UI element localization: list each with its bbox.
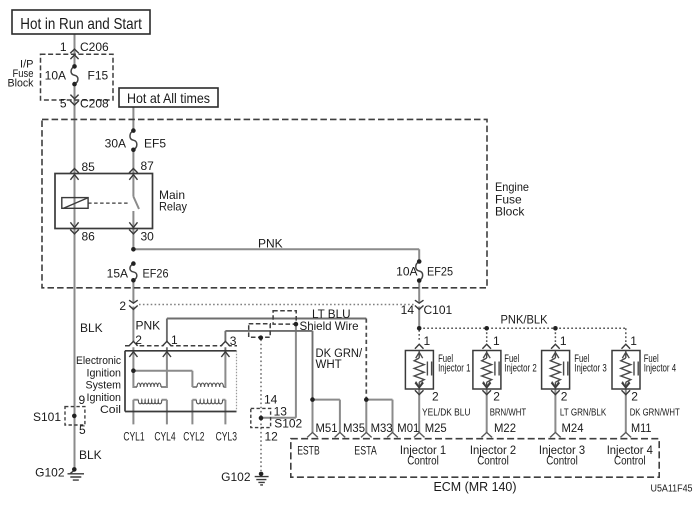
svg-text:1: 1 bbox=[630, 334, 637, 348]
svg-text:EF25: EF25 bbox=[427, 265, 453, 279]
svg-text:Block: Block bbox=[495, 204, 525, 218]
svg-text:C206: C206 bbox=[80, 40, 109, 54]
svg-text:2: 2 bbox=[493, 389, 500, 403]
svg-text:Control: Control bbox=[407, 456, 439, 468]
svg-text:M24: M24 bbox=[562, 421, 584, 435]
svg-text:86: 86 bbox=[82, 229, 96, 243]
svg-text:Injector 4: Injector 4 bbox=[644, 363, 676, 375]
svg-text:Ignition: Ignition bbox=[87, 392, 122, 404]
svg-text:Hot in Run and Start: Hot in Run and Start bbox=[20, 16, 142, 33]
svg-text:CYL4: CYL4 bbox=[154, 431, 176, 443]
svg-text:Control: Control bbox=[477, 456, 509, 468]
svg-text:LT GRN/BLK: LT GRN/BLK bbox=[560, 407, 607, 418]
svg-text:PNK: PNK bbox=[258, 236, 283, 250]
svg-text:G102: G102 bbox=[221, 470, 251, 484]
svg-text:Injector 3: Injector 3 bbox=[574, 363, 606, 375]
svg-text:14: 14 bbox=[401, 303, 415, 317]
svg-text:S102: S102 bbox=[274, 416, 302, 430]
svg-text:M35: M35 bbox=[343, 421, 365, 435]
svg-text:1: 1 bbox=[424, 334, 431, 348]
svg-text:1: 1 bbox=[493, 334, 500, 348]
svg-text:2: 2 bbox=[631, 389, 638, 403]
svg-text:Relay: Relay bbox=[159, 199, 187, 213]
svg-text:CYL2: CYL2 bbox=[183, 431, 204, 443]
svg-text:G102: G102 bbox=[35, 465, 65, 479]
svg-text:Control: Control bbox=[546, 456, 578, 468]
svg-text:F15: F15 bbox=[88, 68, 109, 82]
svg-text:EF5: EF5 bbox=[144, 136, 166, 150]
svg-text:BRN/WHT: BRN/WHT bbox=[490, 407, 527, 418]
svg-text:CYL1: CYL1 bbox=[123, 431, 144, 443]
svg-text:5: 5 bbox=[60, 96, 67, 110]
svg-text:C101: C101 bbox=[424, 303, 453, 317]
svg-text:PNK: PNK bbox=[136, 318, 161, 332]
svg-text:2: 2 bbox=[119, 299, 126, 313]
svg-text:9: 9 bbox=[79, 393, 86, 407]
svg-text:EF26: EF26 bbox=[143, 266, 169, 280]
svg-text:1: 1 bbox=[171, 333, 178, 347]
svg-text:System: System bbox=[86, 380, 122, 392]
svg-text:3: 3 bbox=[230, 334, 237, 348]
svg-text:Hot at All times: Hot at All times bbox=[127, 90, 210, 106]
svg-text:Coil: Coil bbox=[100, 404, 121, 416]
svg-text:YEL/DK BLU: YEL/DK BLU bbox=[422, 407, 471, 418]
svg-text:M51: M51 bbox=[316, 421, 338, 435]
svg-text:Shield Wire: Shield Wire bbox=[300, 319, 359, 333]
svg-text:15A: 15A bbox=[107, 266, 128, 280]
svg-text:87: 87 bbox=[141, 159, 155, 173]
svg-text:M33: M33 bbox=[371, 421, 393, 435]
svg-text:M11: M11 bbox=[631, 421, 652, 435]
svg-text:C208: C208 bbox=[80, 96, 109, 110]
svg-text:1: 1 bbox=[560, 334, 567, 348]
svg-text:Electronic: Electronic bbox=[76, 355, 122, 367]
svg-text:10A: 10A bbox=[396, 265, 417, 279]
svg-text:1: 1 bbox=[60, 40, 67, 54]
svg-text:2: 2 bbox=[561, 389, 568, 403]
svg-text:Injector 1: Injector 1 bbox=[438, 363, 470, 375]
svg-text:2: 2 bbox=[135, 333, 142, 347]
svg-text:DK GRN/WHT: DK GRN/WHT bbox=[630, 407, 680, 418]
svg-text:ECM (MR 140): ECM (MR 140) bbox=[434, 480, 517, 494]
svg-text:5: 5 bbox=[79, 423, 86, 437]
svg-text:Ignition: Ignition bbox=[87, 367, 122, 379]
svg-text:30A: 30A bbox=[105, 136, 126, 150]
svg-text:Control: Control bbox=[614, 456, 646, 468]
svg-text:M01: M01 bbox=[397, 421, 419, 435]
svg-text:S101: S101 bbox=[33, 410, 61, 424]
svg-text:30: 30 bbox=[141, 229, 155, 243]
svg-text:BLK: BLK bbox=[80, 321, 103, 335]
svg-text:M22: M22 bbox=[494, 421, 516, 435]
svg-text:U5A11F45: U5A11F45 bbox=[651, 484, 693, 495]
svg-text:12: 12 bbox=[265, 429, 279, 443]
svg-text:CYL3: CYL3 bbox=[216, 431, 237, 443]
svg-text:10A: 10A bbox=[45, 68, 66, 82]
svg-text:85: 85 bbox=[82, 160, 96, 174]
svg-text:M25: M25 bbox=[425, 421, 447, 435]
svg-text:WHT: WHT bbox=[316, 359, 342, 371]
svg-text:ESTB: ESTB bbox=[297, 446, 320, 458]
svg-text:Injector 2: Injector 2 bbox=[504, 363, 536, 375]
svg-text:ESTA: ESTA bbox=[354, 446, 377, 458]
svg-text:2: 2 bbox=[432, 389, 439, 403]
svg-text:PNK/BLK: PNK/BLK bbox=[501, 312, 548, 326]
svg-text:Block: Block bbox=[8, 78, 34, 90]
svg-text:BLK: BLK bbox=[79, 448, 102, 462]
